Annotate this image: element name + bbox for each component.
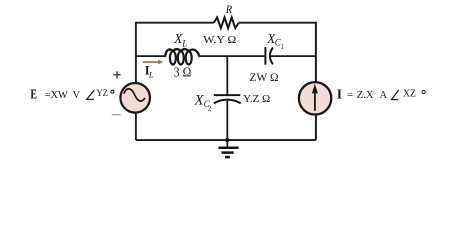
- svg-text:Z.X: Z.X: [357, 90, 374, 101]
- svg-text:L: L: [181, 39, 187, 49]
- plus sign: [113, 71, 120, 78]
- bottom wire: [136, 139, 316, 141]
- resistor R: [214, 17, 239, 28]
- ground stub: [226, 140, 228, 147]
- svg-text:3 Ω: 3 Ω: [174, 64, 192, 79]
- svg-text:E: E: [30, 87, 37, 102]
- middle branch upper wire: [226, 56, 228, 95]
- svg-text:2: 2: [208, 106, 212, 113]
- ground bars: [218, 146, 238, 149]
- svg-text:XZ: XZ: [403, 89, 416, 100]
- voltage source E circle: [120, 83, 150, 113]
- svg-text:R: R: [225, 2, 233, 16]
- capacitor XC2 straight plate: [214, 94, 241, 96]
- sine wave inside source: [124, 89, 145, 101]
- svg-text:YZ: YZ: [96, 88, 108, 99]
- svg-text:Y.Z Ω: Y.Z Ω: [243, 93, 270, 105]
- angle symbol in I label: [392, 90, 399, 100]
- svg-text:=XW: =XW: [45, 90, 68, 101]
- svg-text:L: L: [148, 70, 154, 80]
- degree symbol in I label: [422, 90, 425, 93]
- wire below source: [135, 112, 137, 140]
- svg-text:ZW Ω: ZW Ω: [249, 72, 278, 84]
- current source arrow: [314, 92, 316, 111]
- middle branch lower wire: [226, 101, 228, 141]
- inductor XL coil: [170, 51, 176, 64]
- second row wire right: [270, 55, 316, 57]
- svg-text:I: I: [337, 87, 342, 102]
- second row wire left: [136, 55, 166, 57]
- second row wire middle: [199, 55, 264, 57]
- right vertical wire: [315, 22, 317, 140]
- junction dot: [225, 138, 229, 142]
- degree symbol in E label: [111, 90, 114, 93]
- angle symbol in E label: [87, 90, 95, 99]
- svg-text:=: =: [347, 90, 353, 101]
- svg-text:V: V: [73, 90, 81, 101]
- svg-text:A: A: [380, 90, 388, 101]
- minus sign: [112, 114, 121, 116]
- left vertical wire: [135, 22, 137, 84]
- current source I circle: [299, 82, 331, 114]
- svg-text:W.Y Ω: W.Y Ω: [203, 34, 236, 46]
- current arrow IL: [143, 61, 159, 63]
- top wire: [136, 22, 316, 24]
- svg-text:1: 1: [281, 44, 284, 51]
- capacitor XC2 curved plate: [214, 100, 241, 104]
- capacitor XC1 curved plate: [270, 48, 273, 65]
- capacitor XC1 straight plate: [264, 47, 266, 65]
